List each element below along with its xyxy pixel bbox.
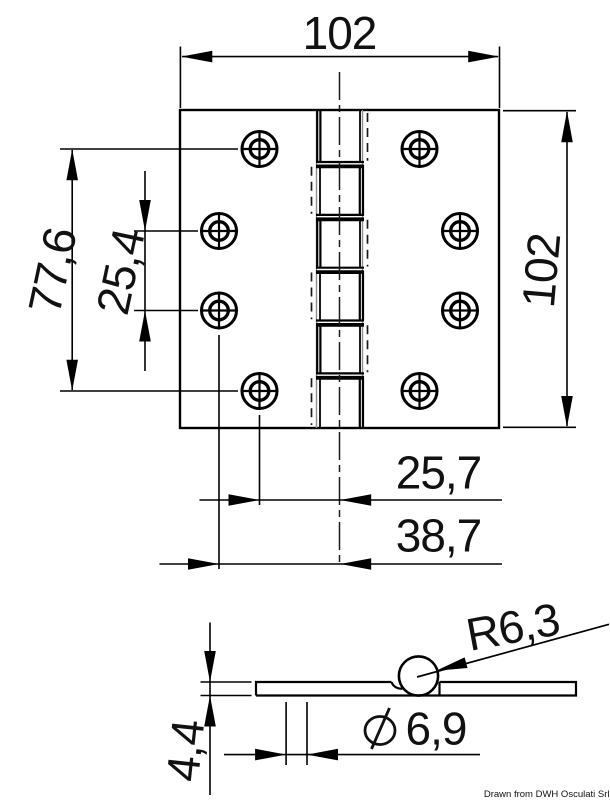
screw hole mid-upper-right [441,212,478,249]
svg-text:4,4: 4,4 [156,717,214,783]
dimension 4,4: dimension line with outside arrowheads [204,623,216,796]
dimension 25,4: dimension line with outside arrowheads [139,171,151,371]
leader line for R6,3 with arrowhead [417,624,609,677]
extension line from bottom-left hole column (25,7 ref) [259,415,261,505]
screw hole bottom-right [401,372,438,409]
dimension 77,6: dimension line with arrowheads [66,149,78,390]
knuckle divider 3 [316,268,364,272]
knuckle divider 1 [316,162,364,166]
dimension 77,6: extension lines [60,149,238,391]
knuckle segment 6 [320,376,363,428]
svg-text:38,7: 38,7 [396,510,482,562]
knuckle segment 1 [317,110,360,163]
screw hole bottom-left [241,372,278,409]
diameter symbol of Ø6,9 [365,708,395,749]
side view: left leaf wrap curve into knuckle [392,682,403,689]
screw hole mid-lower-right [441,292,478,329]
extension line from lower-left hole column (38,7 ref) [218,335,220,569]
dimension Ø6,9: dimension line with outside arrowheads [224,749,480,761]
svg-text:77,6: 77,6 [18,223,87,317]
dimension 102 (top width): extension lines [180,47,499,109]
dimension 25,7: dimension line with arrowheads [200,494,503,506]
knuckle segment 2 [320,165,363,216]
hinge pin centerline [339,72,341,564]
svg-text:6,9: 6,9 [406,703,467,755]
dimension 102 (right height): dimension line with arrowheads [561,111,573,427]
knuckle leaf-edge line right (gray) [362,110,364,428]
svg-text:25,7: 25,7 [396,447,482,499]
knuckle segment 4 [320,271,363,321]
hidden knuckle edge (dashed) left, segment 2 [311,273,313,320]
knuckle divider 2 [316,215,364,219]
screw hole mid-upper-left [200,212,237,249]
knuckle segment 5 [317,324,360,375]
screw hole mid-lower-left [200,292,237,329]
dimension 102 (top width): dimension line with arrowheads [181,51,499,63]
hidden knuckle edge (dashed) right, segment 3 [367,325,369,372]
screw hole top-right [401,130,438,167]
dimension Ø6,9: extension lines [286,702,307,765]
knuckle divider 5 [316,373,364,377]
dimension 38,7: dimension line with arrowheads [160,558,503,570]
svg-text:R6,3: R6,3 [462,593,563,661]
hidden knuckle edge (dashed) left, segment 3 [311,378,313,425]
hinge plate outline (top view, 102x102) [180,110,499,428]
svg-text:102: 102 [303,7,377,59]
side view: hinge leaf bar outline [256,682,576,696]
svg-text:Drawn from DWH Osculati Srl: Drawn from DWH Osculati Srl [484,789,610,800]
knuckle divider 4 [316,321,364,325]
hidden knuckle edge (dashed) right, segment 2 [367,220,369,267]
svg-text:102: 102 [512,232,570,310]
dimension 102 (right height): extension lines [503,111,576,428]
dimension 25,4: extension lines [134,231,198,311]
knuckle segment 3 [317,218,360,268]
hidden knuckle edge (dashed) right, segment 1 [367,113,369,161]
dimension 4,4: extension lines [201,682,252,696]
side view: knuckle barrel circle R6,3 [399,656,438,695]
screw hole top-left [241,130,278,167]
knuckle leaf-edge line left (gray) [316,110,318,428]
hidden knuckle edge (dashed) left, segment 1 [311,167,313,214]
